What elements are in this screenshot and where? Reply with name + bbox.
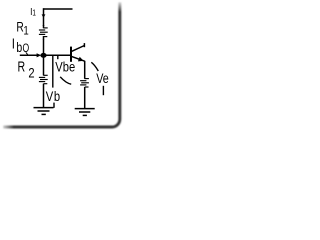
svg-text:Vb: Vb xyxy=(46,89,61,104)
svg-text:Ve: Ve xyxy=(96,71,109,86)
svg-text:Vbe: Vbe xyxy=(55,59,75,74)
svg-text:1: 1 xyxy=(23,25,28,38)
svg-text:2: 2 xyxy=(28,65,34,80)
svg-text:R: R xyxy=(18,59,26,75)
svg-text:I: I xyxy=(12,35,15,52)
svg-text:Q: Q xyxy=(23,43,30,55)
svg-text:b: b xyxy=(16,40,22,56)
svg-text:1: 1 xyxy=(32,8,36,18)
